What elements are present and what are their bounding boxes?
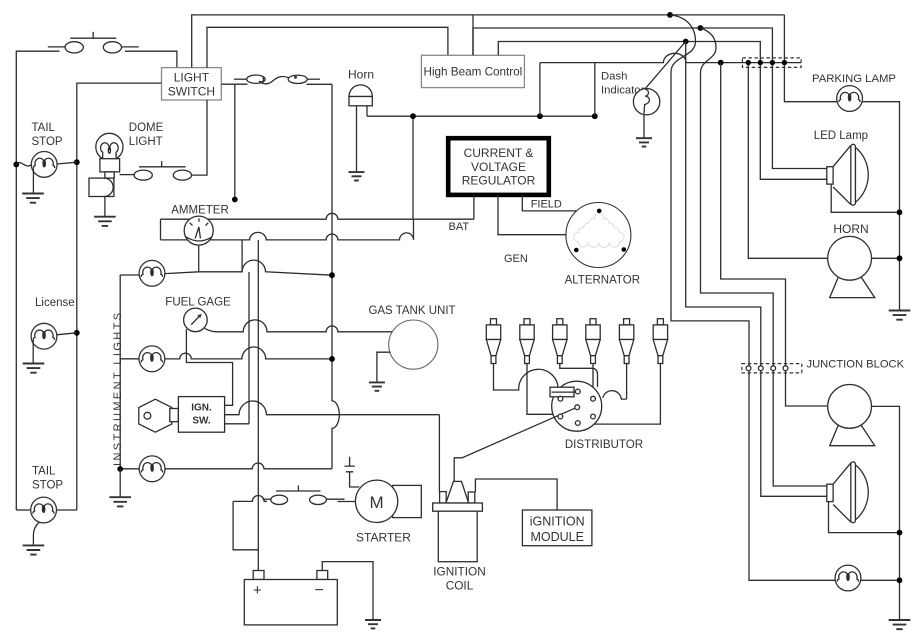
key connector rect (170, 409, 179, 422)
distributor cap contact 3 (575, 389, 580, 394)
spark plug 4 (586, 319, 600, 364)
wire: y116 feed line (367, 115, 595, 117)
alternator terminal dot 1 (597, 209, 602, 214)
ignition coil right terminal (468, 492, 475, 503)
wire: LED lamp 2 return (829, 502, 900, 533)
switch contact ellipse 1 (65, 42, 83, 53)
wire: battery negative to ground (322, 562, 373, 620)
ignition switch box (178, 397, 224, 433)
svg-text:IGNITION: IGNITION (433, 565, 485, 579)
connector: horn feed stub left (234, 78, 247, 80)
junction dot: dead-end tap (232, 197, 238, 203)
wire: headlight switch left lead (16, 51, 59, 164)
svg-text:High Beam Control: High Beam Control (424, 66, 523, 79)
wire: light switch west line to tail vertical (77, 83, 162, 510)
svg-text:Dash: Dash (601, 71, 627, 83)
wire row y501.4 with hop (233, 496, 267, 502)
wire: tail lamp 2 left lead (16, 509, 31, 511)
ground: horn top (349, 172, 365, 180)
distributor cap contact 1 (558, 396, 563, 401)
svg-text:HORN: HORN (833, 222, 868, 236)
ammeter meter circle (184, 216, 213, 245)
starter switch contact ellipse 1 (271, 495, 288, 504)
wire row y358.9: lamp2 to center vertical with hops (165, 347, 332, 359)
switch contact ellipse 2 (103, 42, 121, 53)
svg-text:SWITCH: SWITCH (168, 85, 215, 99)
wire: feed riser to bus bar (412, 116, 414, 219)
wire: L2 branch curve (700, 28, 826, 486)
wire: tail lamp 1 ground stem (32, 168, 34, 193)
dash indicator bulb (633, 89, 659, 115)
wire: license lamp right lead (57, 333, 77, 335)
junction dot on L1 (667, 12, 673, 18)
wire: right vertical to ground (899, 290, 901, 310)
svg-text:ALTERNATOR: ALTERNATOR (565, 275, 640, 287)
svg-text:iGNITION: iGNITION (530, 515, 585, 529)
starter switch contact stub left (263, 498, 271, 500)
wire: light switch right tap (221, 84, 247, 199)
wire: plug 1 to distributor with bridge over plug2 wire (494, 363, 559, 390)
svg-text:INSTRUMENT LIGHTS: INSTRUMENT LIGHTS (112, 311, 124, 467)
ground: tail lamp 2 (23, 545, 45, 554)
spark plug 5 (619, 319, 633, 364)
svg-text:FUEL GAGE: FUEL GAGE (165, 297, 231, 309)
ignition coil left terminal (440, 492, 447, 503)
bus bar left end cap (160, 219, 162, 240)
starter solenoid rect (393, 485, 422, 517)
junction block 1 terminal 1 (746, 60, 751, 65)
distributor cap contact 2 (558, 414, 563, 419)
junction dot LED1 return (897, 209, 903, 215)
svg-text:License: License (35, 297, 75, 309)
wire squiggle between horn connector ellipses (259, 76, 289, 83)
junction block 1 terminal 4 (782, 60, 787, 65)
wire: riser to bus bottom (241, 240, 243, 272)
wire L2 east: HBC output to LED lamp 1 (473, 28, 827, 169)
wire: tail lamp 1 left lead squiggle (16, 163, 31, 166)
ammeter bus bar top edge (161, 213, 474, 219)
horn 1 (828, 236, 875, 297)
svg-text:+: + (253, 582, 262, 599)
wire: L3 branch vertical (686, 42, 827, 497)
spark plug 6 (653, 319, 667, 364)
alternator terminal dot 2 (574, 248, 579, 253)
junction dot on L3 (683, 39, 689, 45)
spark plug 3 (553, 319, 567, 364)
junction block 2 terminal 1 (746, 366, 751, 371)
wire: horn 1 right lead (872, 257, 900, 259)
spark plug 1 (486, 319, 500, 364)
wire: rotor lead to ignition coil tower (454, 407, 577, 481)
horn 2 (828, 385, 875, 446)
ground: battery (365, 620, 381, 628)
ammeter needle (195, 227, 200, 238)
wire: FIELD lead to alternator (522, 195, 576, 211)
wire: left vertical to lower tail lamp (15, 164, 17, 510)
fuel gage needle arrow (191, 317, 199, 325)
distributor cap contact 4 (575, 421, 580, 426)
dome switch contact ellipse 1 (134, 170, 152, 180)
junction dot tail lamp right (74, 159, 80, 165)
svg-text:−: − (315, 582, 324, 599)
wire: lower right lamp right lead (860, 579, 899, 581)
alternator circle (566, 203, 631, 268)
wire: junction block feed to horn 1 (748, 63, 827, 259)
wire: instrument lights vertical (119, 275, 121, 469)
junction dot L4 staircase (718, 60, 724, 66)
junction dot instrument ground (117, 466, 123, 472)
wire: diagonal to dash indicator (645, 42, 686, 89)
svg-text:DISTRIBUTOR: DISTRIBUTOR (565, 438, 643, 451)
svg-text:JUNCTION BLOCK: JUNCTION BLOCK (807, 359, 905, 371)
lamp: instrument lamp 1 (139, 260, 165, 286)
wire: parking lamp right lead and right-side vertical (862, 102, 900, 290)
distributor rotor center (575, 405, 580, 410)
ammeter ticks (190, 218, 209, 225)
spark plug 2 (520, 319, 534, 364)
starter switch blade bar (276, 490, 321, 492)
svg-text:REGULATOR: REGULATOR (462, 174, 536, 188)
wire: dome switch left stub (120, 174, 135, 176)
wire: ammeter bottom drop (198, 245, 200, 272)
junction dot horn 1 (897, 255, 903, 261)
svg-text:IGN.: IGN. (191, 403, 212, 414)
wire: horn connector right to center vertical (307, 83, 333, 85)
wire: tail lamp 1 right lead (57, 162, 77, 164)
dome bulb neck (100, 159, 120, 172)
junction block 2 terminal 2 (758, 366, 763, 371)
junction block 2 terminal 3 (771, 366, 776, 371)
wire: dash indicator ground stem (643, 114, 645, 138)
wire inside tab to contact (552, 391, 576, 393)
junction dot LED2 return (897, 530, 903, 536)
wire: horn feed to y116 line (366, 106, 368, 116)
wire: dome switch to light switch bottom (192, 100, 208, 175)
wire: tail lamp 2 ground stem (33, 522, 39, 545)
wire: plug 4 to distributor (592, 363, 594, 396)
svg-text:LIGHT: LIGHT (129, 136, 163, 148)
junction dot row358.9 (329, 356, 335, 362)
wire L1: light switch top riser and main headlamp feed (192, 15, 785, 68)
lamp: instrument lamp 2 (139, 346, 165, 372)
key symbol hexagon (139, 399, 172, 432)
junction block 1 terminal 3 (770, 60, 775, 65)
ammeter bus bar bottom edge (161, 219, 414, 240)
ammeter dial arc (186, 237, 211, 241)
switch contact stub left (48, 46, 65, 48)
dash indicator filament (644, 89, 649, 114)
wire: starter switch to motor (338, 501, 356, 503)
svg-text:STOP: STOP (32, 136, 63, 148)
wire: L1 end through block to parking lamp (784, 15, 837, 102)
wire: battery positive riser (257, 240, 259, 571)
connector: horn feed ellipse 1 (247, 75, 265, 83)
condenser symbol (344, 457, 354, 472)
wire C: ignition switch to riser x249 (225, 423, 249, 425)
wire: center vertical x332 with jog hop (332, 84, 339, 469)
wire: lamp3 left lead (120, 468, 139, 470)
dome switch contact ellipse 2 (173, 170, 191, 180)
starter switch contact ellipse 2 (310, 495, 327, 504)
wire: license ground stem (32, 340, 34, 363)
wire: condenser to starter (350, 472, 360, 487)
key circle (144, 412, 151, 419)
LED lamp 1 (827, 144, 868, 205)
wire: plug 6 to distributor (595, 363, 661, 424)
ground: license (23, 364, 45, 373)
lamp: License (31, 323, 57, 349)
lamp: TAIL STOP upper (31, 152, 57, 178)
wire: vertical x249 (248, 272, 250, 424)
wire row y331.8: fuel gage to gas tank unit (205, 320, 392, 332)
svg-text:STOP: STOP (32, 480, 63, 492)
connector: horn feed stub right (307, 78, 320, 80)
dome lamp base cylinder (89, 178, 114, 196)
wire: GEN lead to alternator (498, 195, 566, 235)
junction block 2 (dashed) (742, 364, 802, 373)
junction dot license (74, 330, 80, 336)
ground: dash indicator (636, 138, 652, 146)
svg-text:AMMETER: AMMETER (171, 205, 229, 217)
distributor cap contact 5 (591, 396, 596, 401)
junction dot feed/L4 start (537, 113, 543, 119)
switch tick mark (92, 32, 94, 38)
svg-text:FIELD: FIELD (531, 199, 562, 211)
svg-text:VOLTAGE: VOLTAGE (471, 160, 526, 174)
battery body (244, 580, 337, 625)
light switch box (162, 68, 222, 100)
wire: coil left riser (438, 415, 440, 492)
lamp: tail circuit lamp lower right (835, 565, 861, 591)
ignition module box (522, 510, 592, 546)
junction dot feed/bus (410, 113, 416, 119)
svg-text:SW.: SW. (192, 416, 211, 427)
svg-text:COIL: COIL (446, 579, 474, 593)
wire: plug 2 to distributor (527, 363, 554, 414)
svg-text:LED Lamp: LED Lamp (814, 130, 868, 142)
junction dot feed/L4 end (592, 113, 598, 119)
ignition coil flange (433, 503, 483, 511)
svg-text:BAT: BAT (449, 221, 470, 233)
wire L3: HBC output to LED lamp 1 second terminal (498, 42, 827, 180)
wire: switch to light switch box top (125, 51, 177, 68)
alternator terminal dot 3 (622, 247, 627, 252)
ground: gas tank (369, 382, 385, 390)
switch: headlight switch blade bar (70, 37, 116, 39)
svg-text:GEN: GEN (504, 253, 528, 265)
junction block 2 terminal 4 (783, 366, 788, 371)
lamp: TAIL STOP lower (31, 497, 57, 523)
ground: dome light (94, 217, 116, 226)
ignition coil tower (446, 481, 469, 503)
wire: gas tank ground lead (377, 352, 391, 382)
wire: staircase to horn 2 (721, 63, 828, 406)
junction dot tail lamp left (13, 162, 19, 168)
lamp: instrument lamp 3 (139, 456, 165, 482)
svg-text:Horn: Horn (348, 68, 374, 82)
svg-text:STARTER: STARTER (356, 531, 411, 545)
distributor cap terminal tab (550, 387, 574, 397)
svg-text:TAIL: TAIL (32, 122, 56, 134)
gas tank unit circle (389, 320, 438, 369)
wire: L4 riser 2 (594, 63, 596, 117)
wire: lamp1 left lead (120, 274, 139, 276)
svg-text:TAIL: TAIL (32, 466, 56, 478)
dome switch blade bar (139, 166, 186, 168)
fuel gage circle (184, 308, 208, 332)
connector: horn feed ellipse 2 (288, 75, 307, 83)
ignition coil body (438, 511, 477, 562)
junction dot on L2 east (698, 25, 704, 31)
horn (top) dome (349, 85, 372, 97)
lamp: parking lamp (837, 86, 863, 112)
wire: L4 riser 1 (539, 63, 541, 117)
distributor circle (552, 381, 602, 431)
starter motor circle (355, 480, 397, 522)
junction block 1 (dashed) (742, 58, 801, 68)
distributor cap contact 6 (591, 414, 596, 419)
connector curl in ellipse 1 (259, 78, 263, 82)
dome light bulb circle (96, 133, 123, 160)
LED lamp 2 (827, 462, 868, 523)
battery terminal - (317, 571, 328, 580)
dome switch tick (161, 161, 163, 167)
junction dot lamp return (897, 577, 903, 583)
svg-text:MODULE: MODULE (530, 530, 583, 544)
horn (top) base rect (349, 97, 372, 106)
svg-text:DOME: DOME (129, 122, 164, 134)
connector wire-end dot in ellipse 2 (294, 76, 297, 79)
dome bulb collar (105, 172, 114, 178)
wire B: ignition switch to coil riser (225, 401, 440, 415)
ground: right side upper (889, 311, 911, 320)
wire: plug 5 to distributor (603, 363, 627, 399)
wire: horn 2 right lead and lower right vertical (872, 406, 900, 619)
ground: instrument lights (109, 497, 131, 506)
dome bulb filament (101, 143, 119, 159)
wire L2 west: light switch to high beam control (207, 27, 448, 67)
wire row y272: lamp1 to center vertical with hop (165, 260, 332, 275)
wire: starter feed west leg (233, 501, 258, 549)
high beam control box (421, 55, 524, 87)
alternator winding pattern (574, 214, 624, 248)
junction dot row272 (329, 272, 335, 278)
starter switch tick (297, 485, 299, 491)
wire: plug 3 to distributor (560, 363, 598, 387)
battery terminal + (253, 571, 264, 580)
switch contact stub right (122, 46, 139, 48)
ground: bottom right (889, 620, 911, 629)
svg-text:CURRENT &: CURRENT & (464, 146, 534, 160)
current and voltage regulator box (bold) (448, 138, 549, 195)
wire: horn ground stem (356, 106, 358, 172)
ground: tail lamp 1 (22, 194, 44, 203)
junction block 1 terminal 2 (758, 60, 763, 65)
wire: ignition module to coil (475, 479, 557, 510)
wire: instrument ground stem (119, 469, 121, 497)
svg-text:M: M (370, 493, 384, 512)
wire: LED lamp 1 return (831, 184, 899, 212)
wire row y468.8: lamp3 to center vertical (165, 463, 332, 469)
wire: tail lamp 2 right lead (57, 509, 77, 511)
wire L4: accessory feed line with hop (540, 53, 801, 62)
starter switch contact stub right (326, 498, 344, 500)
wire: fuel gage bottom drop to ignition switch (186, 329, 232, 405)
svg-text:GAS TANK UNIT: GAS TANK UNIT (368, 305, 455, 317)
svg-text:LIGHT: LIGHT (174, 71, 210, 85)
wire: BAT lead (473, 195, 475, 219)
svg-text:PARKING LAMP: PARKING LAMP (812, 73, 896, 85)
wire: dome ground stem (104, 197, 106, 217)
wire: lamp2 left lead (120, 358, 138, 360)
wire: L1 branch curve to tail circuit (670, 15, 836, 580)
wire: L1 drop to high beam control (472, 15, 474, 55)
